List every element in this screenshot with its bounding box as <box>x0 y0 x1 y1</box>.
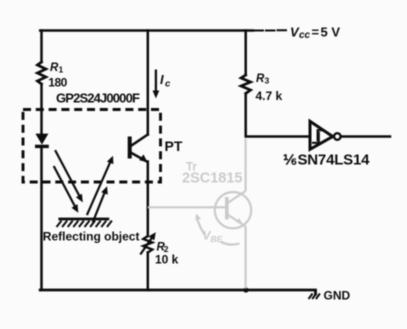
svg-text:3: 3 <box>265 76 270 86</box>
svg-text:GND: GND <box>324 288 351 302</box>
svg-text:GP2S24J0000F: GP2S24J0000F <box>56 90 140 105</box>
svg-text:SN74LS14: SN74LS14 <box>298 151 371 168</box>
svg-text:BE: BE <box>211 234 223 244</box>
svg-text:Reflecting object: Reflecting object <box>43 230 140 244</box>
svg-text:10 k: 10 k <box>155 253 179 267</box>
svg-text:5 V: 5 V <box>321 25 341 40</box>
svg-text:cc: cc <box>299 30 311 41</box>
svg-text:=: = <box>312 25 320 40</box>
svg-text:I: I <box>160 72 164 87</box>
svg-text:c: c <box>165 79 171 90</box>
svg-text:1: 1 <box>59 64 64 74</box>
svg-text:180: 180 <box>48 76 67 90</box>
svg-text:PT: PT <box>165 138 183 154</box>
svg-text:4.7 k: 4.7 k <box>256 89 283 103</box>
svg-text:2SC1815: 2SC1815 <box>182 170 242 186</box>
svg-text:⅙: ⅙ <box>283 151 297 167</box>
